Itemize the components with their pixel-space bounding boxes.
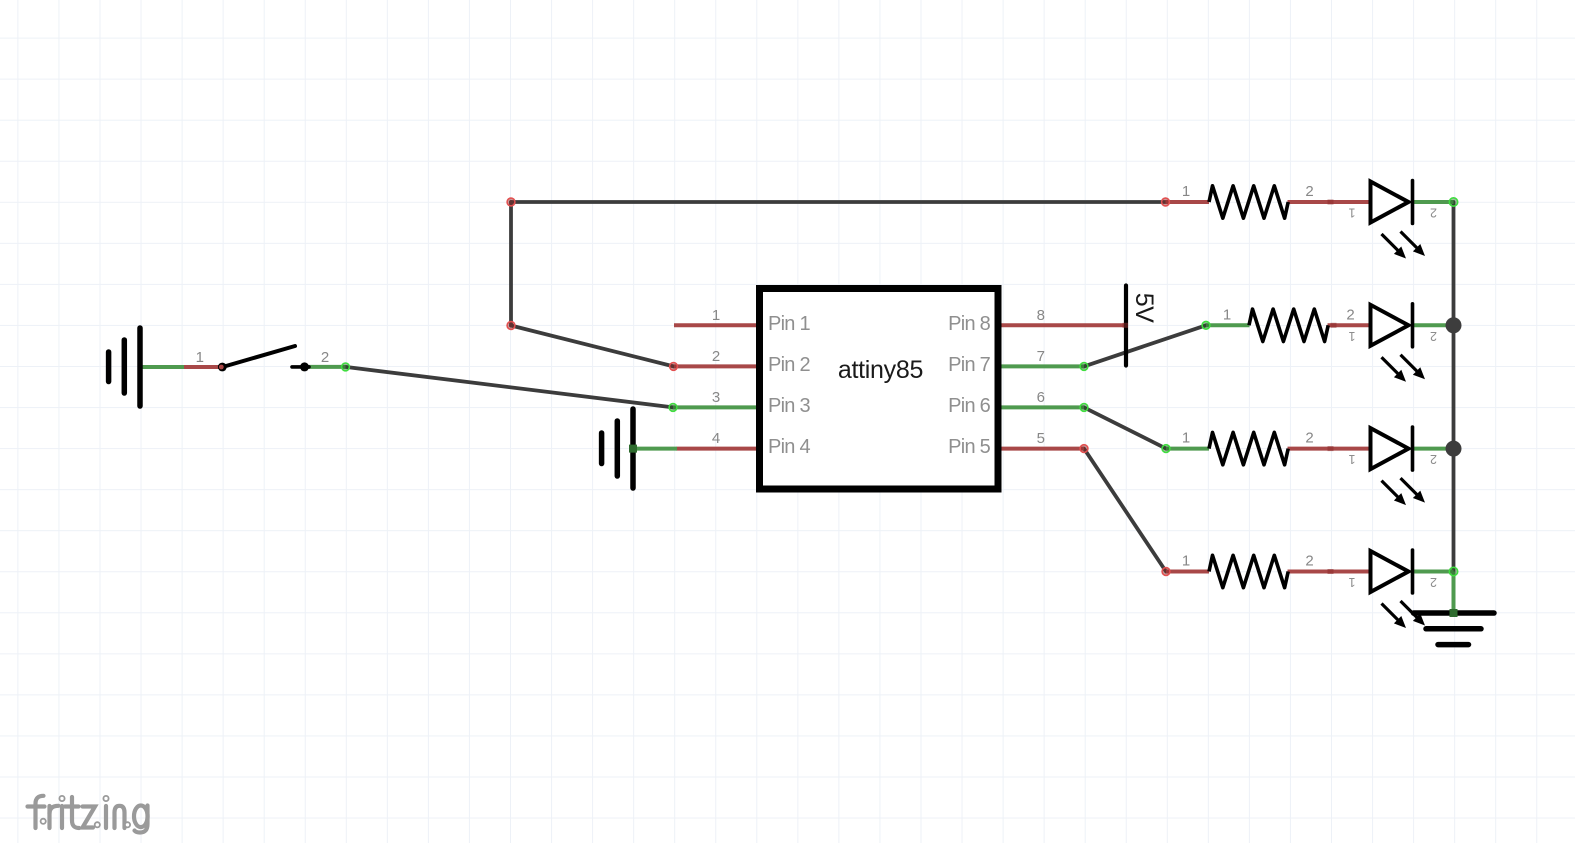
- wire red: resistor R3 pin 2 to LED3 anode: [1288, 447, 1373, 451]
- LED D3: [1348, 427, 1437, 505]
- pin lead: switch pin 1: [184, 365, 223, 369]
- wire green: ground to switch pin 1: [140, 365, 184, 369]
- svg-text:2: 2: [1305, 430, 1313, 447]
- fritzing logo: [28, 796, 148, 833]
- svg-text:Pin 6: Pin 6: [948, 395, 990, 417]
- pin lead green: IC Pin 7: [998, 364, 1084, 368]
- pin lead: IC Pin 8 to 5V: [998, 323, 1128, 327]
- 5V supply: [1126, 286, 1158, 366]
- wire green: lead into resistor R3: [1166, 447, 1209, 451]
- svg-text:1: 1: [1348, 575, 1355, 589]
- pin lead: IC Pin 2: [674, 364, 760, 368]
- node: red at Pin 5: [1080, 445, 1088, 453]
- pin lead: IC Pin 1: [674, 323, 760, 327]
- svg-text:8: 8: [1037, 307, 1045, 324]
- ground GND2 (at IC Pin 4): [602, 409, 633, 488]
- wire: top horizontal net from junction to resistor R1: [511, 200, 1166, 204]
- LED D2: [1348, 304, 1437, 382]
- svg-text:2: 2: [1430, 575, 1437, 589]
- svg-text:2: 2: [1305, 553, 1313, 570]
- wire: diagonal to Pin 2: [511, 326, 674, 367]
- wire: switch to Pin 3: [346, 367, 674, 408]
- LED D1: [1348, 181, 1437, 259]
- svg-text:attiny85: attiny85: [838, 356, 923, 384]
- svg-text:1: 1: [196, 349, 204, 366]
- wire red: resistor R4 pin 2 to LED4 anode: [1288, 570, 1373, 574]
- LED D4: [1348, 550, 1437, 628]
- svg-text:2: 2: [1430, 452, 1437, 466]
- node: green at LED1 cathode corner: [1449, 198, 1457, 206]
- svg-text:5V: 5V: [1130, 293, 1158, 323]
- node: green at resistor R3 lead: [1162, 445, 1170, 453]
- svg-text:2: 2: [1430, 206, 1437, 220]
- wire green: LED1 cathode to bus: [1413, 200, 1454, 204]
- wire: Pin 7 to resistor R2: [1084, 325, 1206, 366]
- node: green at resistor R2 lead: [1202, 321, 1210, 329]
- wire joint marks (darker red overlaps): [1123, 200, 1337, 575]
- svg-text:1: 1: [1348, 329, 1355, 343]
- resistor R1: [1182, 183, 1314, 218]
- svg-text:2: 2: [1346, 306, 1354, 323]
- svg-text:Pin 3: Pin 3: [768, 395, 810, 417]
- svg-text:7: 7: [1037, 348, 1045, 365]
- wire red: resistor R1 pin 2 to LED1 anode: [1288, 200, 1373, 204]
- svg-text:Pin 7: Pin 7: [948, 354, 990, 376]
- wire green: LED2 cathode to bus: [1413, 323, 1454, 327]
- svg-text:Pin 5: Pin 5: [948, 436, 990, 458]
- svg-text:1: 1: [1348, 452, 1355, 466]
- svg-text:1: 1: [1182, 430, 1190, 447]
- svg-text:1: 1: [1182, 553, 1190, 570]
- wire: Pin 6 to resistor R3: [1084, 407, 1166, 448]
- resistor R4: [1182, 553, 1314, 588]
- node: green square at GND3: [1450, 609, 1458, 617]
- wire green: lead into resistor R2: [1206, 323, 1250, 327]
- svg-text:2: 2: [321, 349, 329, 366]
- wire red: lead into resistor R1: [1166, 200, 1210, 204]
- pin lead green: IC Pin 6: [998, 405, 1084, 409]
- node: green at LED4 / bus bottom: [1449, 567, 1457, 575]
- node: red at resistor R1 lead: [1162, 198, 1170, 206]
- junction dot on bus at LED2: [1446, 317, 1462, 333]
- node: red at resistor R4 lead: [1162, 568, 1170, 576]
- ground GND1 (left, at switch): [109, 328, 140, 406]
- svg-text:1: 1: [1223, 306, 1231, 323]
- node: green at Pin 6: [1080, 404, 1088, 412]
- pin lead green: IC Pin 3: [673, 405, 760, 409]
- node: green at Pin 7: [1080, 363, 1088, 371]
- ground GND3 (bottom right): [1414, 613, 1495, 645]
- node: red junction left vertical bottom: [507, 322, 515, 330]
- node: green at switch pin 2: [342, 363, 350, 371]
- svg-text:1: 1: [1348, 206, 1355, 220]
- svg-text:1: 1: [1182, 183, 1190, 200]
- wire green: LED4 cathode to bus: [1413, 570, 1454, 574]
- wire red: lead into resistor R4: [1166, 570, 1209, 574]
- node: green at Pin 3: [669, 404, 677, 412]
- IC U1 attiny85: [760, 289, 999, 490]
- pin lead: IC Pin 4 (inner red part): [677, 447, 761, 451]
- resistor R3: [1182, 430, 1314, 465]
- svg-text:Pin 2: Pin 2: [768, 354, 810, 376]
- svg-text:3: 3: [712, 389, 720, 406]
- switch S1: [196, 346, 330, 371]
- svg-text:2: 2: [1430, 329, 1437, 343]
- svg-text:Pin 8: Pin 8: [948, 313, 990, 335]
- wire: left vertical segment: [509, 202, 513, 326]
- svg-text:1: 1: [712, 307, 720, 324]
- svg-text:6: 6: [1037, 389, 1045, 406]
- node: red junction top-left corner: [507, 198, 515, 206]
- wire green: switch pin 2 stub: [305, 365, 346, 369]
- wire: Pin 5 to resistor R4: [1084, 449, 1166, 572]
- svg-text:Pin 4: Pin 4: [768, 436, 810, 458]
- wire green: bus down to ground: [1452, 572, 1456, 614]
- node: red at Pin 2: [670, 363, 678, 371]
- node: red at switch pivot: [218, 363, 227, 372]
- pin lead: IC Pin 5: [998, 447, 1084, 451]
- svg-text:4: 4: [712, 430, 720, 447]
- node: green square at GND2: [629, 445, 637, 453]
- junction dot on bus at LED3: [1446, 441, 1462, 457]
- svg-text:2: 2: [1305, 183, 1313, 200]
- svg-text:Pin 1: Pin 1: [768, 313, 810, 335]
- wire green: LED3 cathode to bus: [1413, 447, 1454, 451]
- wire: right vertical bus (LED cathodes): [1452, 202, 1456, 572]
- wire green: ground to IC Pin 4: [633, 447, 677, 451]
- svg-text:2: 2: [712, 348, 720, 365]
- resistor R2: [1223, 306, 1355, 341]
- svg-text:5: 5: [1037, 430, 1045, 447]
- wire red: resistor R2 pin 2 to LED2 anode: [1328, 323, 1373, 327]
